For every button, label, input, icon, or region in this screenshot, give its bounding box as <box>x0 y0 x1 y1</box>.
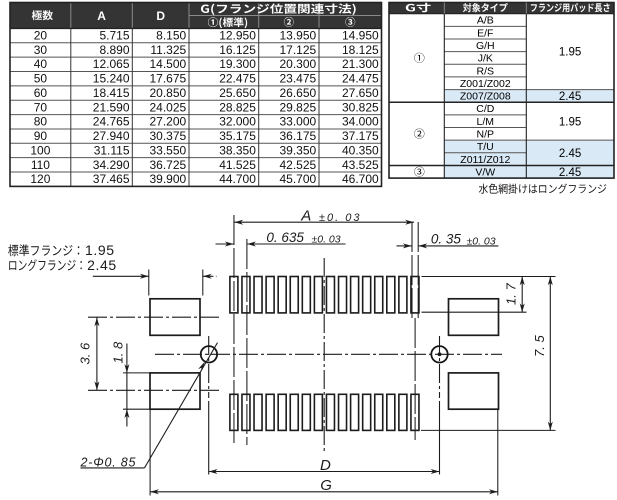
svg-text:13.950: 13.950 <box>279 29 316 43</box>
svg-text:Z007/Z008: Z007/Z008 <box>460 91 511 103</box>
left table header background <box>10 3 382 29</box>
svg-text:40.350: 40.350 <box>342 143 379 157</box>
svg-text:30.375: 30.375 <box>149 129 186 143</box>
svg-text:20.300: 20.300 <box>279 57 316 71</box>
svg-text:17.675: 17.675 <box>149 72 186 86</box>
svg-text:37.465: 37.465 <box>93 172 130 186</box>
pad bottom 3 <box>254 394 262 430</box>
svg-text:1. 7: 1. 7 <box>504 283 519 305</box>
svg-text:17.125: 17.125 <box>279 43 316 57</box>
pad top 2 <box>242 277 250 313</box>
pad top 14 <box>387 277 395 313</box>
dimension 3.6 <box>96 317 98 390</box>
extension line bottom-left pad bottom edge <box>123 408 159 410</box>
svg-text:80: 80 <box>34 115 48 129</box>
svg-text:46.700: 46.700 <box>342 172 379 186</box>
svg-text:N/P: N/P <box>477 129 495 141</box>
svg-text:41.525: 41.525 <box>219 158 256 172</box>
extension line flange pad right <box>202 270 204 296</box>
svg-text:18.415: 18.415 <box>93 86 130 100</box>
extension line last pad left edge <box>411 222 413 318</box>
section border 2/3 <box>389 164 614 166</box>
extension line bottom-left pad top edge <box>123 372 159 374</box>
pad top 6 <box>290 277 298 313</box>
svg-text:±0. 03: ±0. 03 <box>319 212 362 224</box>
right table: G-dimension type table <box>389 3 614 179</box>
extension line pads top edge right <box>422 276 556 278</box>
svg-text:E/F: E/F <box>477 27 493 39</box>
pad bottom 6 <box>290 394 298 430</box>
pad bottom 16 <box>411 394 419 430</box>
left table grid lines <box>10 42 382 44</box>
pad bottom 10 <box>339 394 347 430</box>
svg-text:27.200: 27.200 <box>149 115 186 129</box>
svg-text:2-Φ0. 85: 2-Φ0. 85 <box>80 455 137 469</box>
right table header background <box>389 3 614 14</box>
leader underline <box>81 467 145 469</box>
svg-text:44.700: 44.700 <box>219 172 256 186</box>
pad top 1 <box>230 277 238 313</box>
svg-text:A: A <box>97 9 106 23</box>
extension line G right <box>497 410 499 496</box>
svg-text:D: D <box>156 9 165 23</box>
svg-text:8.150: 8.150 <box>156 29 186 43</box>
svg-text:R/S: R/S <box>477 65 495 77</box>
horizontal center line <box>155 353 502 355</box>
svg-text:Z001/Z002: Z001/Z002 <box>460 78 511 90</box>
svg-text:38.350: 38.350 <box>219 143 256 157</box>
pad bottom 15 <box>399 394 407 430</box>
svg-text:29.825: 29.825 <box>279 100 316 114</box>
svg-text:23.475: 23.475 <box>279 72 316 86</box>
svg-text:15.240: 15.240 <box>93 72 130 86</box>
svg-text:100: 100 <box>30 143 50 157</box>
dimension G <box>150 491 498 493</box>
pad bottom 4 <box>266 394 274 430</box>
svg-text:33.550: 33.550 <box>149 143 186 157</box>
extension line pad column 1 center <box>233 215 235 445</box>
pad top 11 <box>351 277 359 313</box>
G寸 ① cell <box>414 53 424 63</box>
center line top-left flange pad <box>88 316 219 318</box>
right table grid lines <box>444 25 526 27</box>
pad top 4 <box>266 277 274 313</box>
pad top 16 <box>411 277 419 313</box>
pad top 9 <box>326 277 334 313</box>
note ロングフランジ：2.45 <box>9 259 82 271</box>
svg-text:25.650: 25.650 <box>219 86 256 100</box>
right table highlight rows (light blue) <box>444 90 614 103</box>
svg-text:5.715: 5.715 <box>99 29 129 43</box>
left table subheader ② <box>284 17 294 27</box>
pad top 12 <box>363 277 371 313</box>
dimension A ±0.03 <box>234 221 414 223</box>
leader line to left hole <box>145 343 218 468</box>
svg-text:16.125: 16.125 <box>219 43 256 57</box>
dimension 7.5 <box>549 277 551 431</box>
leader arrowhead <box>198 362 205 372</box>
extension line pads bottom edge right <box>422 311 527 313</box>
svg-text:0. 635: 0. 635 <box>266 230 304 245</box>
right table header G寸 <box>406 3 431 12</box>
svg-text:24.475: 24.475 <box>342 72 379 86</box>
left table subheader ①(標準) <box>208 17 247 28</box>
svg-text:J/K: J/K <box>478 53 493 65</box>
svg-text:2.45: 2.45 <box>559 167 581 179</box>
pad bottom 9 <box>326 394 334 430</box>
section border 1/2 <box>389 101 614 103</box>
svg-text:G/H: G/H <box>476 40 495 52</box>
svg-text:110: 110 <box>31 158 50 172</box>
svg-text:2.45: 2.45 <box>559 91 581 103</box>
svg-text:36.725: 36.725 <box>149 158 186 172</box>
svg-text:A/B: A/B <box>477 15 494 27</box>
svg-text:1.95: 1.95 <box>559 47 581 59</box>
pad bottom 2 <box>242 394 250 430</box>
svg-text:12.950: 12.950 <box>219 29 256 43</box>
right table header 対象タイプ <box>463 3 508 12</box>
note 標準フランジ：1.95 <box>8 244 79 256</box>
svg-text:Z011/Z012: Z011/Z012 <box>460 154 510 166</box>
center line right hole vertical lower <box>439 401 441 475</box>
pad top 15 <box>399 277 407 313</box>
svg-text:26.650: 26.650 <box>279 86 316 100</box>
extension line G left <box>149 410 151 496</box>
dimension 0.635 ±0.03 <box>216 243 234 245</box>
center line right hole vertical <box>439 336 441 398</box>
svg-text:G: G <box>320 477 332 494</box>
svg-text:±0. 03: ±0. 03 <box>467 236 496 248</box>
svg-text:34.000: 34.000 <box>342 115 379 129</box>
pad top 13 <box>375 277 383 313</box>
pad bottom 14 <box>387 394 395 430</box>
svg-text:1.95: 1.95 <box>85 242 115 258</box>
svg-text:3. 6: 3. 6 <box>78 342 93 364</box>
note 水色網掛けはロングフランジ <box>479 184 607 194</box>
right table header フランジ用パッド長さ <box>531 3 610 12</box>
pad bottom 7 <box>302 394 310 430</box>
hole left (2-φ0.85) <box>201 346 217 362</box>
extension line flange pad left <box>148 270 150 296</box>
pad top 7 <box>302 277 310 313</box>
dimension flange pad width (1.95/2.45) <box>93 275 149 277</box>
svg-text:22.475: 22.475 <box>219 72 256 86</box>
extension line pads bottom row bottom edge <box>421 429 556 431</box>
svg-text:21.300: 21.300 <box>342 57 379 71</box>
pad top 5 <box>278 277 286 313</box>
flange pad top-right <box>449 299 499 336</box>
svg-text:39.350: 39.350 <box>279 143 316 157</box>
svg-text:27.650: 27.650 <box>342 86 379 100</box>
svg-text:11.325: 11.325 <box>150 43 186 57</box>
svg-text:39.900: 39.900 <box>149 172 186 186</box>
hole right (2-φ0.85) <box>431 346 447 362</box>
pad bottom 11 <box>351 394 359 430</box>
svg-text:1. 8: 1. 8 <box>111 341 126 363</box>
pad bottom 13 <box>375 394 383 430</box>
svg-text:90: 90 <box>34 129 48 143</box>
extension line last pad center lower <box>414 318 416 440</box>
svg-text:120: 120 <box>30 172 50 186</box>
dimension D <box>209 471 440 473</box>
left table: connector dimension table <box>10 3 382 187</box>
svg-text:45.700: 45.700 <box>279 172 316 186</box>
dimension 0.35 ±0.03 <box>397 245 412 247</box>
svg-text:27.940: 27.940 <box>93 129 130 143</box>
svg-text:±0. 03: ±0. 03 <box>312 233 341 245</box>
svg-text:30.825: 30.825 <box>342 100 379 114</box>
svg-text:43.525: 43.525 <box>342 158 379 172</box>
svg-text:T/U: T/U <box>477 141 494 153</box>
extension line pad column 2 center <box>246 239 248 445</box>
svg-text:24.765: 24.765 <box>93 115 130 129</box>
svg-text:24.025: 24.025 <box>149 100 186 114</box>
left table header 極数 <box>32 10 53 20</box>
svg-text:36.175: 36.175 <box>279 129 316 143</box>
svg-text:V/W: V/W <box>475 167 495 179</box>
flange pad bottom-right <box>449 373 499 409</box>
svg-text:37.175: 37.175 <box>342 129 379 143</box>
flange pad bottom-left <box>150 373 200 409</box>
svg-text:L/M: L/M <box>477 116 495 128</box>
flange pad top-left <box>150 299 200 336</box>
svg-text:2.45: 2.45 <box>559 148 581 160</box>
svg-text:50: 50 <box>34 72 48 86</box>
svg-text:7. 5: 7. 5 <box>532 335 547 357</box>
pad bottom 5 <box>278 394 286 430</box>
pad bottom 1 <box>230 394 238 430</box>
svg-text:34.290: 34.290 <box>93 158 130 172</box>
left table header G(フランジ位置関連寸法) <box>201 4 356 16</box>
svg-text:28.825: 28.825 <box>219 100 256 114</box>
extension line last pad right edge <box>417 222 419 318</box>
svg-text:1.95: 1.95 <box>559 116 581 128</box>
svg-text:C/D: C/D <box>476 103 495 115</box>
pad top 8 <box>314 277 322 313</box>
svg-text:D: D <box>320 457 331 474</box>
svg-text:20: 20 <box>34 29 48 43</box>
svg-text:32.000: 32.000 <box>219 115 256 129</box>
G寸 ③ cell <box>414 167 424 177</box>
pad top 3 <box>254 277 262 313</box>
svg-text:42.525: 42.525 <box>279 158 316 172</box>
pad bottom 8 <box>314 394 322 430</box>
svg-text:21.590: 21.590 <box>93 100 130 114</box>
pad bottom 12 <box>363 394 371 430</box>
svg-text:2.45: 2.45 <box>87 257 117 273</box>
svg-text:14.500: 14.500 <box>149 57 186 71</box>
svg-text:33.000: 33.000 <box>279 115 316 129</box>
svg-text:19.300: 19.300 <box>219 57 256 71</box>
G寸 ② cell <box>414 129 424 139</box>
svg-text:14.950: 14.950 <box>342 29 379 43</box>
center line left hole vertical lower <box>208 401 210 475</box>
svg-text:30: 30 <box>34 43 48 57</box>
svg-text:0. 35: 0. 35 <box>431 232 462 247</box>
svg-text:8.890: 8.890 <box>99 43 129 57</box>
pad top 10 <box>339 277 347 313</box>
dimension 1.7 <box>521 277 523 313</box>
svg-text:31.115: 31.115 <box>94 143 130 157</box>
left table subheader ③ <box>345 17 355 27</box>
vertical center line <box>323 258 325 453</box>
svg-text:35.175: 35.175 <box>219 129 256 143</box>
center line left hole vertical <box>208 336 210 398</box>
svg-text:70: 70 <box>34 100 48 114</box>
center line bottom-left flange pad <box>88 389 219 391</box>
svg-text:60: 60 <box>34 86 48 100</box>
svg-text:40: 40 <box>34 57 48 71</box>
dimension 1.8 <box>126 344 128 427</box>
svg-text:A: A <box>300 207 311 224</box>
svg-text:12.065: 12.065 <box>93 57 130 71</box>
svg-text:20.850: 20.850 <box>149 86 186 100</box>
svg-text:18.125: 18.125 <box>342 43 379 57</box>
